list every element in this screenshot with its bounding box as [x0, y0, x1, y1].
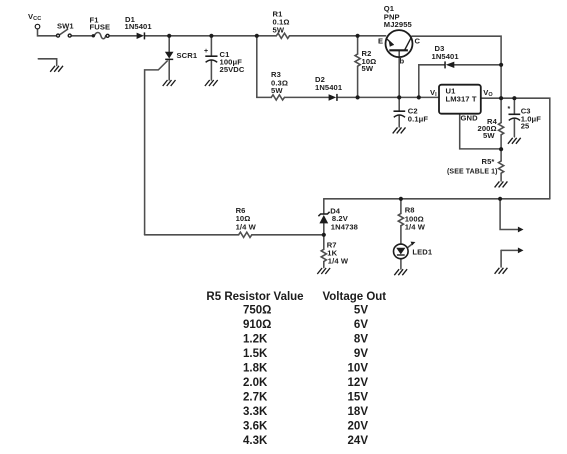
- svg-text:3.3K: 3.3K: [243, 406, 268, 418]
- svg-text:5W: 5W: [483, 131, 495, 140]
- svg-text:9V: 9V: [354, 348, 368, 360]
- svg-text:5V: 5V: [354, 305, 368, 317]
- svg-text:0.1μF: 0.1μF: [408, 115, 429, 124]
- svg-text:25: 25: [521, 122, 530, 131]
- svg-text:750Ω: 750Ω: [243, 305, 271, 317]
- svg-text:1.5K: 1.5K: [243, 348, 268, 360]
- svg-text:1N4738: 1N4738: [331, 223, 358, 232]
- svg-text:1N5401: 1N5401: [125, 22, 153, 31]
- svg-text:910Ω: 910Ω: [243, 319, 271, 331]
- svg-text:R8: R8: [405, 206, 415, 215]
- svg-text:3.6K: 3.6K: [243, 421, 268, 433]
- svg-text:R5 Resistor Value: R5 Resistor Value: [206, 291, 303, 303]
- svg-text:8V: 8V: [354, 334, 368, 346]
- svg-text:24V: 24V: [348, 435, 369, 447]
- svg-text:15V: 15V: [348, 392, 369, 404]
- svg-text:MJ2955: MJ2955: [384, 20, 413, 29]
- svg-text:C: C: [415, 37, 421, 46]
- svg-text:1/4 W: 1/4 W: [328, 257, 349, 266]
- svg-text:*: *: [508, 106, 511, 113]
- svg-text:2.7K: 2.7K: [243, 392, 268, 404]
- svg-text:SCR1: SCR1: [177, 51, 198, 60]
- svg-text:LM317 T: LM317 T: [446, 95, 477, 104]
- svg-text:18V: 18V: [348, 406, 369, 418]
- svg-text:12V: 12V: [348, 377, 369, 389]
- svg-text:1N5401: 1N5401: [315, 83, 343, 92]
- svg-text:FUSE: FUSE: [90, 23, 111, 32]
- svg-text:5W: 5W: [271, 86, 283, 95]
- svg-text:20V: 20V: [348, 421, 369, 433]
- svg-text:R5*: R5*: [482, 157, 495, 166]
- svg-text:Voltage Out: Voltage Out: [322, 291, 386, 303]
- svg-text:6V: 6V: [354, 319, 368, 331]
- svg-text:GND: GND: [461, 114, 479, 123]
- svg-text:b: b: [400, 57, 405, 66]
- svg-text:2.0K: 2.0K: [243, 377, 268, 389]
- svg-text:10V: 10V: [348, 363, 369, 375]
- svg-text:1.2K: 1.2K: [243, 334, 268, 346]
- svg-text:25VDC: 25VDC: [220, 65, 245, 74]
- svg-text:1/4 W: 1/4 W: [236, 223, 257, 232]
- svg-text:+: +: [204, 48, 208, 55]
- svg-text:(SEE TABLE 1): (SEE TABLE 1): [447, 169, 498, 176]
- svg-text:5W: 5W: [273, 26, 285, 35]
- svg-text:E: E: [378, 37, 383, 46]
- svg-text:4.3K: 4.3K: [243, 435, 268, 447]
- svg-text:1/4 W: 1/4 W: [405, 223, 426, 232]
- svg-text:1N5401: 1N5401: [432, 52, 460, 61]
- svg-text:5W: 5W: [362, 64, 374, 73]
- svg-text:SW1: SW1: [57, 22, 74, 31]
- svg-text:1.8K: 1.8K: [243, 363, 268, 375]
- svg-text:LED1: LED1: [412, 248, 432, 257]
